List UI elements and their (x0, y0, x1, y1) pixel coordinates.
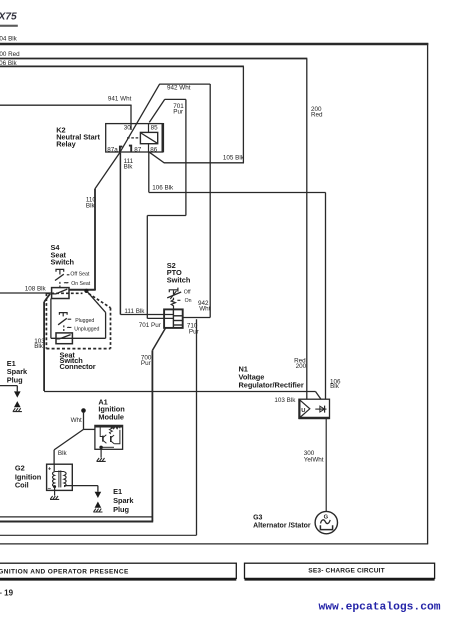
svg-text:www.epcatalogs.com: www.epcatalogs.com (319, 602, 441, 614)
svg-text:85: 85 (151, 124, 159, 131)
svg-text:Pur: Pur (141, 360, 151, 367)
svg-text:Blk: Blk (58, 450, 68, 457)
svg-text:Pur: Pur (173, 109, 183, 116)
svg-text:Unplugged: Unplugged (74, 326, 99, 332)
svg-text:E1: E1 (113, 487, 122, 496)
svg-text:GX75: GX75 (0, 12, 17, 23)
svg-text:Switch: Switch (167, 276, 191, 285)
svg-text:86: 86 (150, 146, 158, 153)
svg-text:30: 30 (124, 124, 132, 131)
svg-text:941 Wht: 941 Wht (108, 95, 132, 102)
svg-text:Off: Off (184, 290, 191, 296)
svg-text:Off Seat: Off Seat (70, 271, 89, 277)
svg-text:Alternator /Stator: Alternator /Stator (253, 522, 311, 529)
svg-text:Connector: Connector (60, 362, 96, 371)
svg-text:108 Blk: 108 Blk (25, 285, 47, 292)
svg-text:103 Blk: 103 Blk (274, 397, 296, 404)
svg-text:Red: Red (311, 112, 323, 119)
svg-text:Blk: Blk (330, 383, 340, 390)
svg-text:Blk: Blk (124, 163, 134, 170)
svg-text:On: On (185, 298, 192, 304)
svg-text:Module: Module (98, 412, 124, 421)
svg-text:Plugged: Plugged (75, 318, 94, 324)
svg-text:Relay: Relay (56, 140, 76, 149)
svg-text:Wht: Wht (71, 417, 82, 424)
svg-text:Plug: Plug (113, 505, 129, 514)
svg-text:106 Blk: 106 Blk (152, 184, 174, 191)
svg-text:SE3- CHARGE CIRCUIT: SE3- CHARGE CIRCUIT (308, 568, 385, 575)
svg-text:Blk: Blk (86, 202, 96, 209)
svg-text:On Seat: On Seat (71, 281, 91, 287)
svg-text:Spark: Spark (113, 496, 134, 505)
svg-text:Wht: Wht (199, 306, 210, 313)
svg-text:105 Blk: 105 Blk (223, 155, 245, 162)
svg-text:Blk: Blk (34, 343, 44, 350)
svg-text:Coil: Coil (15, 481, 29, 490)
svg-text:701 Pur: 701 Pur (139, 322, 161, 329)
svg-text:Pur: Pur (189, 329, 199, 336)
svg-text:Regulator/Rectifier: Regulator/Rectifier (239, 380, 304, 389)
svg-text:– 19: – 19 (0, 589, 14, 598)
svg-text:111 Blk: 111 Blk (124, 308, 145, 315)
svg-text:Plug: Plug (7, 375, 23, 384)
svg-text:104 Blk: 104 Blk (0, 36, 18, 43)
svg-text:87: 87 (134, 146, 142, 153)
svg-text:87a: 87a (107, 146, 118, 153)
svg-text:942 Wht: 942 Wht (167, 84, 191, 91)
svg-text:200 Red: 200 Red (0, 51, 20, 58)
svg-text:IGNITION AND OPERATOR PRESENCE: IGNITION AND OPERATOR PRESENCE (0, 568, 129, 575)
svg-text:200: 200 (296, 363, 307, 370)
svg-text:+: + (48, 466, 52, 472)
svg-text:–: – (48, 486, 52, 492)
svg-text:U: U (301, 408, 305, 414)
svg-text:YelWht: YelWht (304, 456, 324, 463)
svg-text:Switch: Switch (51, 258, 75, 267)
svg-text:G3: G3 (253, 514, 262, 521)
